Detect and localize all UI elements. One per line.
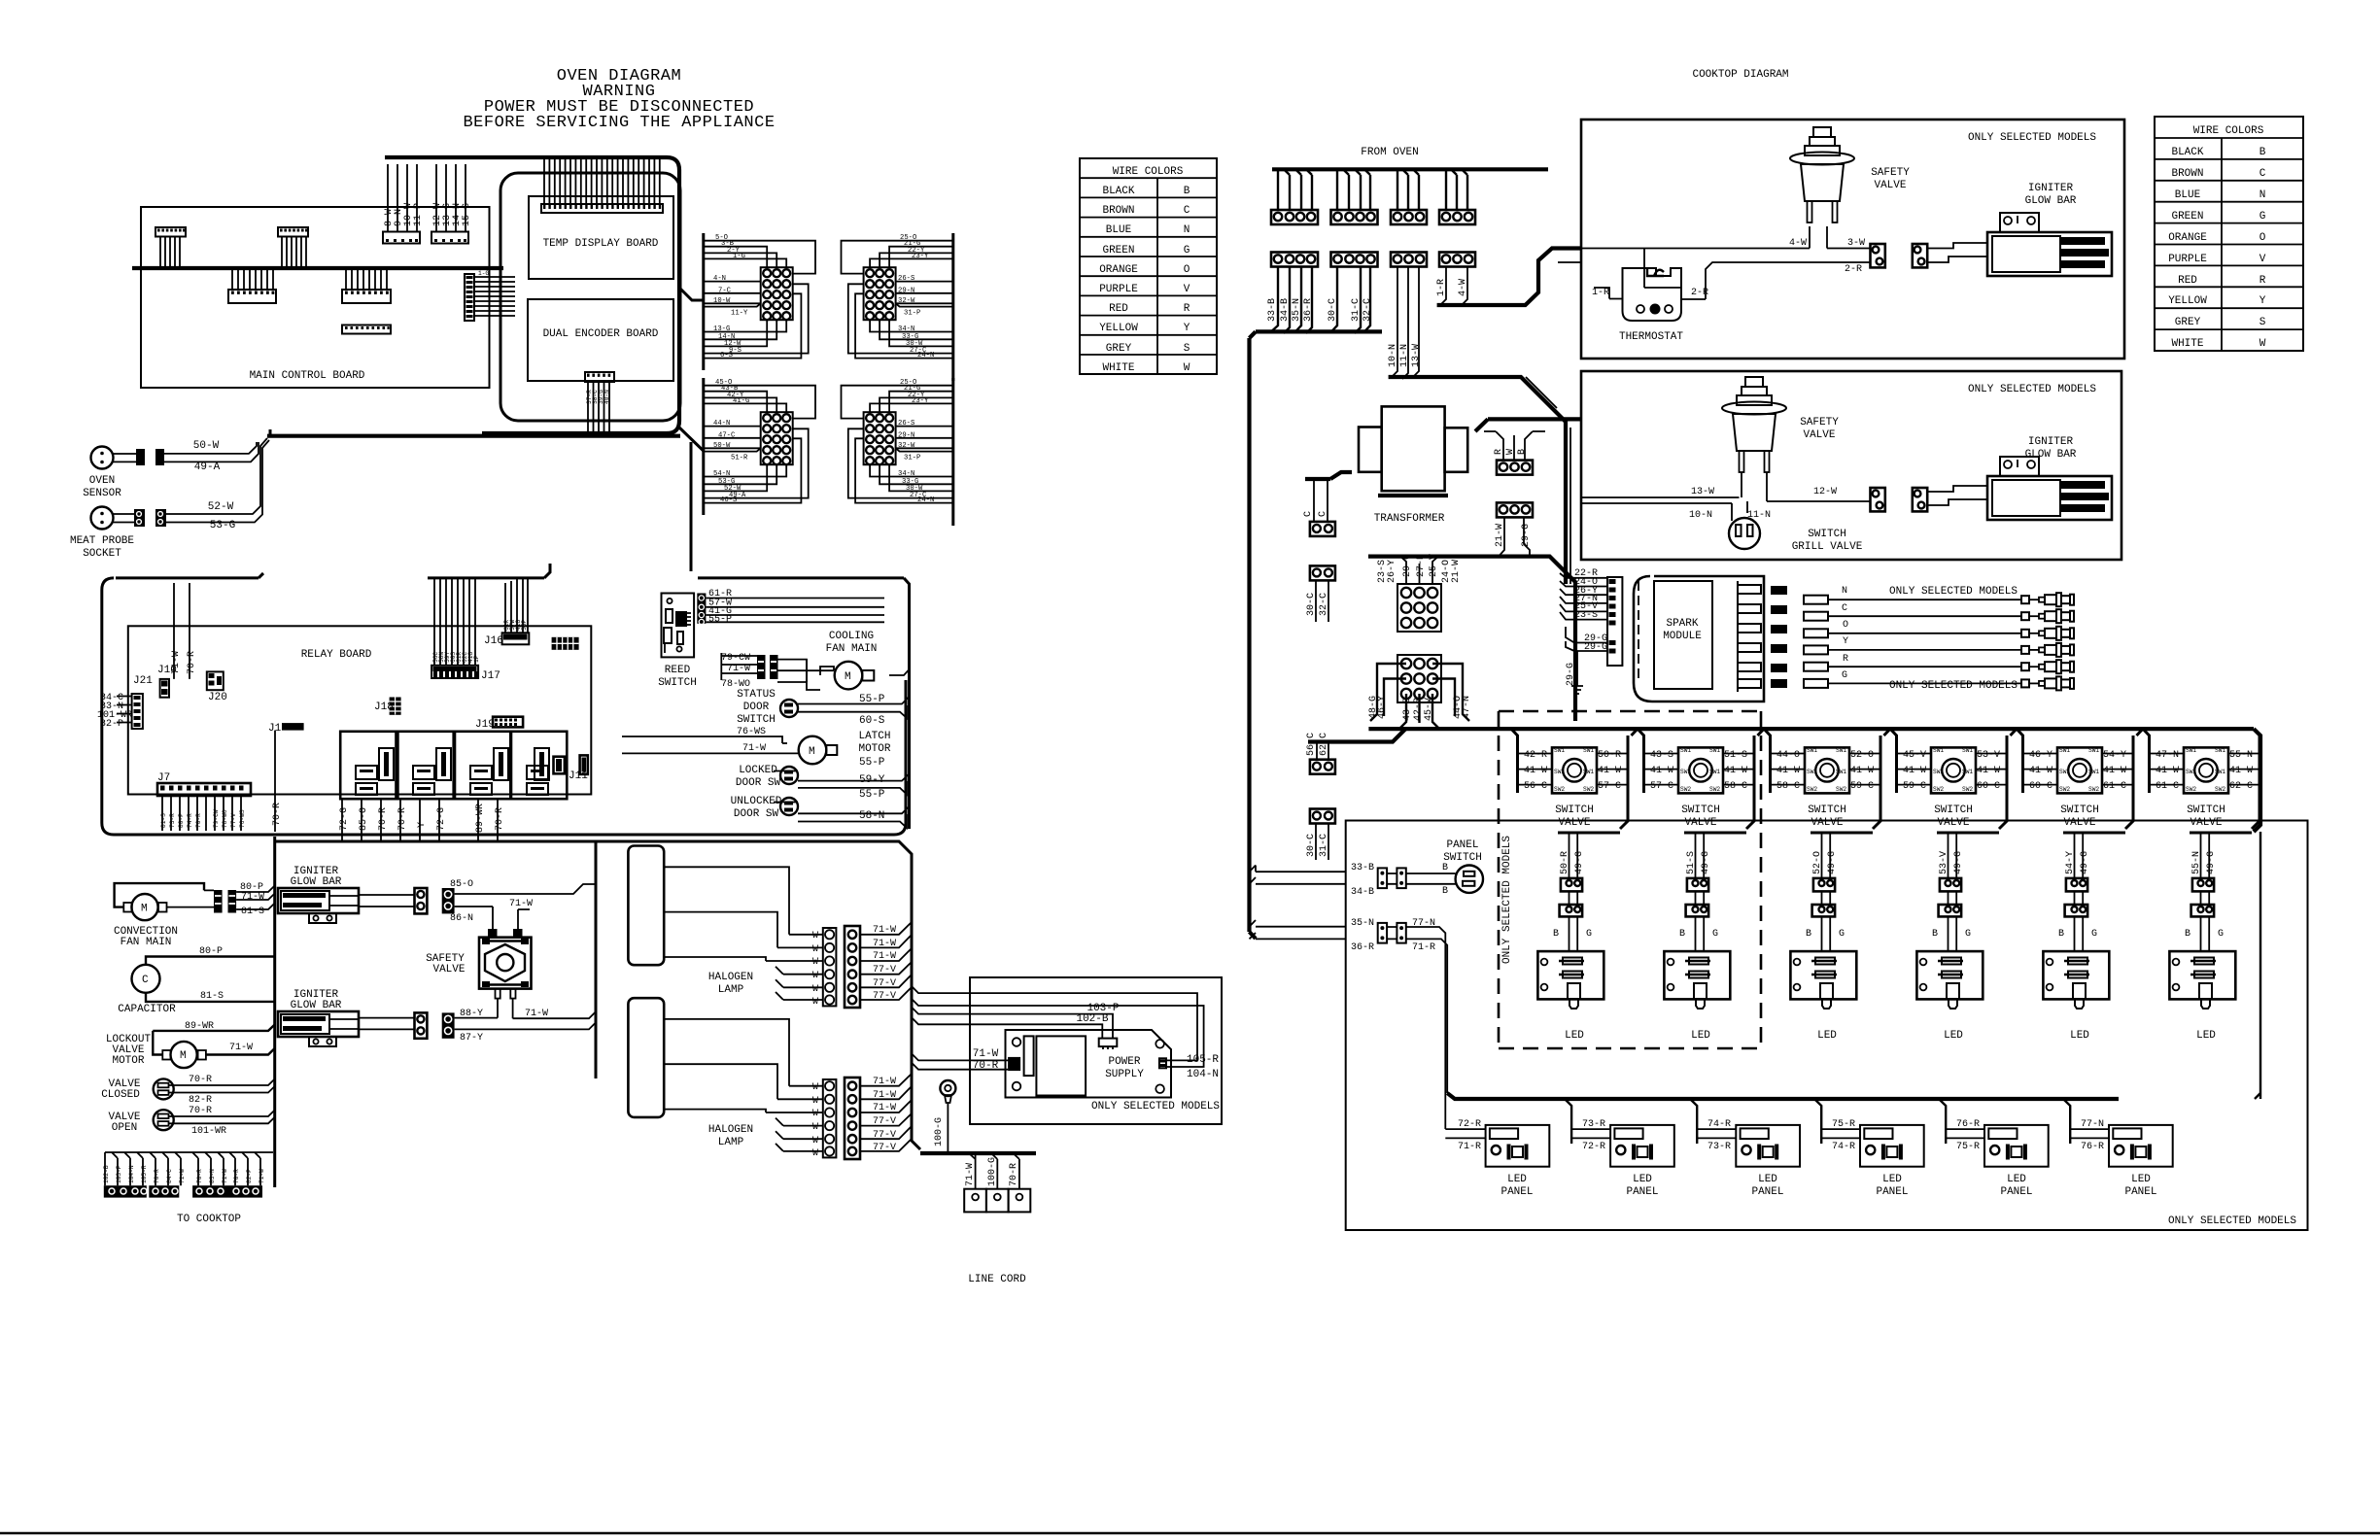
vertical bus to panel switch wires xyxy=(1250,866,1346,940)
switch valve 2 labels xyxy=(1650,750,1747,874)
svg-text:PANEL: PANEL xyxy=(1751,1186,1783,1198)
svg-text:FROM OVEN: FROM OVEN xyxy=(1361,147,1418,158)
svg-text:41-W: 41-W xyxy=(1524,766,1547,776)
igniter glow bar 2 xyxy=(278,989,415,1046)
svg-text:2-R: 2-R xyxy=(1845,264,1862,275)
svg-text:12-W: 12-W xyxy=(1813,487,1837,497)
svg-text:SW1: SW1 xyxy=(1836,747,1846,754)
svg-text:35-N: 35-N xyxy=(1292,298,1302,322)
svg-text:B: B xyxy=(1932,929,1938,940)
svg-text:SW2: SW2 xyxy=(1836,786,1846,793)
svg-text:R: R xyxy=(1184,303,1190,315)
svg-text:1-G: 1-G xyxy=(733,253,745,260)
main cooktop bus xyxy=(1250,729,2261,939)
connector J on board top-left 1 xyxy=(155,227,186,268)
main board bus (thick horizontal) xyxy=(132,266,503,270)
svg-text:Y: Y xyxy=(417,822,428,828)
relay top path segment xyxy=(428,442,904,578)
svg-text:89-WR: 89-WR xyxy=(475,804,486,833)
svg-text:GREY: GREY xyxy=(1106,343,1132,355)
svg-text:82-P: 82-P xyxy=(246,1169,253,1183)
svg-text:G: G xyxy=(1842,670,1847,681)
svg-text:74-R: 74-R xyxy=(1832,1142,1855,1152)
svg-text:70-R: 70-R xyxy=(1009,1163,1019,1186)
svg-text:ONLY SELECTED MODELS: ONLY SELECTED MODELS xyxy=(1091,1101,1220,1112)
svg-text:56-C: 56-C xyxy=(1524,781,1547,792)
to cooktop connectors xyxy=(103,1152,273,1225)
connector 56C 62C xyxy=(1306,733,1335,774)
svg-text:71-W: 71-W xyxy=(965,1163,976,1186)
svg-text:57-C: 57-C xyxy=(1598,781,1621,792)
svg-text:SW2: SW2 xyxy=(1554,786,1565,793)
svg-text:SW1: SW1 xyxy=(2088,747,2099,754)
svg-text:C: C xyxy=(1184,205,1190,217)
halogen lamp 1 xyxy=(628,846,789,997)
svg-text:W: W xyxy=(812,1109,818,1119)
svg-text:71-W: 71-W xyxy=(241,892,264,903)
svg-text:SWITCH: SWITCH xyxy=(1681,804,1720,816)
svg-text:LED: LED xyxy=(1633,1174,1652,1185)
svg-text:30-C: 30-C xyxy=(1306,593,1317,616)
svg-text:B: B xyxy=(1517,449,1528,455)
svg-text:73-R: 73-R xyxy=(1582,1119,1605,1130)
svg-text:70-R: 70-R xyxy=(189,1075,212,1085)
svg-text:41-W: 41-W xyxy=(2156,766,2179,776)
spark module input connector xyxy=(1560,568,1622,694)
svg-text:VALVE: VALVE xyxy=(2190,817,2222,829)
svg-text:M: M xyxy=(845,671,851,683)
svg-text:4-N: 4-N xyxy=(713,275,726,283)
svg-text:C: C xyxy=(1303,511,1314,517)
svg-text:GLOW BAR: GLOW BAR xyxy=(2025,449,2077,461)
connector 30C 32C xyxy=(1306,565,1335,622)
svg-text:103-P: 103-P xyxy=(116,1165,122,1183)
svg-text:PANEL: PANEL xyxy=(2124,1186,2156,1198)
svg-text:LED: LED xyxy=(1817,1030,1837,1042)
svg-text:52-O: 52-O xyxy=(1850,750,1874,761)
svg-text:GRILL VALVE: GRILL VALVE xyxy=(1792,541,1863,553)
svg-text:51-R: 51-R xyxy=(731,455,748,462)
svg-text:81-S: 81-S xyxy=(241,907,264,917)
svg-text:86-N: 86-N xyxy=(450,913,473,924)
svg-text:STATUS: STATUS xyxy=(737,689,776,701)
top connectors with wires up to top bus 1 xyxy=(383,164,424,244)
switch valve 3 labels xyxy=(1776,750,1874,874)
cluster harness BL xyxy=(704,378,815,515)
svg-text:34-B: 34-B xyxy=(1351,887,1374,898)
meat probe socket xyxy=(70,507,166,561)
svg-text:SW1: SW1 xyxy=(2215,747,2225,754)
svg-text:50-R: 50-R xyxy=(1598,750,1621,761)
svg-text:70-R: 70-R xyxy=(397,807,408,831)
svg-text:B: B xyxy=(1806,929,1811,940)
igniter glow bar 1 xyxy=(278,866,415,923)
svg-text:25-V: 25-V xyxy=(1429,554,1439,577)
bus 1R 4W xyxy=(1437,249,1581,306)
svg-text:LED: LED xyxy=(2007,1174,2026,1185)
svg-text:SW1: SW1 xyxy=(2059,769,2070,775)
svg-text:58-N: 58-N xyxy=(859,810,884,822)
svg-text:10-N: 10-N xyxy=(1388,344,1398,367)
switch valve 1 labels xyxy=(1524,750,1621,874)
svg-text:59-C: 59-C xyxy=(1903,781,1926,792)
svg-text:S: S xyxy=(2259,317,2266,328)
svg-text:TEMP DISPLAY BOARD: TEMP DISPLAY BOARD xyxy=(543,238,659,250)
pin grid block 1 (9) xyxy=(1377,554,1462,632)
svg-text:13-G: 13-G xyxy=(713,325,730,333)
relay 4 xyxy=(511,732,567,799)
svg-text:71-W: 71-W xyxy=(171,651,182,674)
J21 connector xyxy=(97,675,153,730)
relay 2 xyxy=(397,732,453,799)
svg-text:TRANSFORMER: TRANSFORMER xyxy=(1374,513,1445,525)
svg-text:J21: J21 xyxy=(133,675,153,687)
svg-text:SWITCH: SWITCH xyxy=(1443,852,1482,864)
svg-text:41-W: 41-W xyxy=(1850,766,1874,776)
relay board outer path xyxy=(102,429,906,835)
LED panel 5 xyxy=(1939,1099,2049,1198)
svg-text:82-P: 82-P xyxy=(100,719,123,730)
svg-text:O: O xyxy=(1843,620,1848,631)
svg-text:104-N: 104-N xyxy=(1187,1069,1219,1080)
svg-text:26-S: 26-S xyxy=(898,275,914,283)
svg-text:G: G xyxy=(1839,929,1845,940)
bus under transformer xyxy=(1368,557,1575,721)
svg-text:SW1: SW1 xyxy=(1933,747,1944,754)
switch valve 3 xyxy=(1764,729,1890,1042)
svg-text:54-N: 54-N xyxy=(713,470,730,478)
spark module xyxy=(1634,576,1787,702)
svg-text:70-R: 70-R xyxy=(189,1106,212,1116)
svg-text:LED: LED xyxy=(1944,1030,1963,1042)
svg-text:59-Y: 59-Y xyxy=(859,774,885,786)
svg-text:J18: J18 xyxy=(374,702,394,713)
svg-text:50-W: 50-W xyxy=(713,442,731,450)
svg-text:PURPLE: PURPLE xyxy=(1099,284,1138,295)
svg-text:SW1: SW1 xyxy=(2186,769,2196,775)
svg-text:100-G: 100-G xyxy=(987,1157,998,1186)
svg-text:SWITCH: SWITCH xyxy=(1808,804,1846,816)
svg-text:71-W: 71-W xyxy=(873,939,896,949)
svg-text:LAMP: LAMP xyxy=(718,984,744,996)
svg-text:SW1: SW1 xyxy=(1709,747,1720,754)
svg-text:50-R: 50-R xyxy=(1560,851,1570,874)
igniter connector pair 2 xyxy=(1871,488,1928,511)
svg-text:7-C: 7-C xyxy=(718,287,732,294)
svg-text:11-P: 11-P xyxy=(413,203,424,226)
svg-text:33-B: 33-B xyxy=(1351,863,1374,873)
svg-text:32-W: 32-W xyxy=(898,442,915,450)
svg-text:52-O: 52-O xyxy=(1812,851,1823,874)
svg-text:32-W: 32-W xyxy=(898,297,915,305)
svg-text:101-WR: 101-WR xyxy=(191,1126,226,1137)
svg-text:VALVE: VALVE xyxy=(1874,180,1906,191)
svg-text:75-R: 75-R xyxy=(1956,1142,1980,1152)
svg-text:CLOSED: CLOSED xyxy=(101,1089,140,1101)
svg-text:N: N xyxy=(2259,189,2266,201)
svg-text:21-W: 21-W xyxy=(1495,524,1505,547)
svg-text:M: M xyxy=(141,904,148,915)
svg-text:SW1: SW1 xyxy=(1807,747,1817,754)
svg-text:85-O: 85-O xyxy=(450,879,473,890)
svg-text:SW1: SW1 xyxy=(2186,747,2196,754)
bus under block2 xyxy=(1308,730,1405,742)
svg-text:55-P: 55-P xyxy=(708,615,732,626)
svg-text:BROWN: BROWN xyxy=(1102,205,1134,217)
svg-text:41-W: 41-W xyxy=(2103,766,2126,776)
svg-text:51-S: 51-S xyxy=(1724,750,1747,761)
bus 10N group xyxy=(1389,377,1566,584)
svg-text:11-N: 11-N xyxy=(1399,344,1410,367)
svg-text:33-B: 33-B xyxy=(1267,298,1278,322)
svg-text:DOOR SW: DOOR SW xyxy=(736,777,781,789)
svg-text:B: B xyxy=(1679,929,1685,940)
svg-text:2-R: 2-R xyxy=(1691,288,1708,298)
svg-text:31-P: 31-P xyxy=(904,310,920,318)
status door switch xyxy=(737,689,909,727)
svg-text:W: W xyxy=(812,1096,818,1107)
wire colors table (right) xyxy=(2155,117,2303,351)
svg-text:30-C: 30-C xyxy=(1328,298,1338,322)
svg-text:VALVE: VALVE xyxy=(2063,817,2095,829)
switch valve 6 xyxy=(2143,729,2259,1042)
from oven connector row 2 with tails xyxy=(1267,253,1475,380)
svg-text:B: B xyxy=(1442,863,1448,873)
J10 connector xyxy=(157,583,197,698)
svg-text:54-Y: 54-Y xyxy=(2065,851,2076,874)
svg-text:62-C: 62-C xyxy=(1319,733,1329,756)
svg-text:74-R: 74-R xyxy=(187,813,193,828)
svg-text:105-R: 105-R xyxy=(141,1165,148,1183)
svg-text:41-W: 41-W xyxy=(1977,766,2000,776)
power supply section box xyxy=(970,977,1222,1124)
svg-text:J20: J20 xyxy=(208,692,227,703)
svg-text:MODULE: MODULE xyxy=(1663,631,1702,642)
svg-text:70-R: 70-R xyxy=(233,1169,240,1183)
svg-text:77-V: 77-V xyxy=(873,978,896,989)
svg-text:B: B xyxy=(1184,186,1190,197)
J16 connector xyxy=(484,578,529,647)
svg-text:77-V: 77-V xyxy=(873,991,896,1002)
svg-text:YELLOW: YELLOW xyxy=(1099,323,1138,334)
svg-text:71-W: 71-W xyxy=(873,951,896,962)
svg-text:SW1: SW1 xyxy=(1583,747,1594,754)
svg-text:SW1: SW1 xyxy=(1554,769,1565,775)
svg-text:36-R: 36-R xyxy=(1303,298,1314,322)
svg-text:RED: RED xyxy=(2178,275,2197,287)
svg-text:SW1: SW1 xyxy=(1554,747,1565,754)
svg-text:24-N: 24-N xyxy=(917,496,934,504)
svg-text:102-B: 102-B xyxy=(103,1165,110,1183)
connector mid 1 with ribbon xyxy=(228,268,276,303)
svg-text:13-W: 13-W xyxy=(1411,344,1422,367)
svg-text:SW2: SW2 xyxy=(1583,786,1594,793)
svg-text:34-N: 34-N xyxy=(898,470,914,478)
svg-text:SUPPLY: SUPPLY xyxy=(1105,1069,1144,1080)
locked door switch xyxy=(736,757,910,795)
svg-text:70-R: 70-R xyxy=(272,803,283,826)
J7 wires down with labels xyxy=(160,796,246,831)
switch valve 4 xyxy=(1890,729,2017,1042)
svg-text:C: C xyxy=(142,975,149,986)
svg-text:46-Y: 46-Y xyxy=(1377,696,1388,719)
svg-text:ORANGE: ORANGE xyxy=(2168,232,2207,244)
svg-text:N: N xyxy=(1842,586,1847,597)
svg-text:77-N: 77-N xyxy=(1412,918,1435,929)
svg-text:70-R: 70-R xyxy=(195,813,202,828)
svg-text:SW2: SW2 xyxy=(1933,786,1944,793)
top thick bus over boards xyxy=(385,157,679,433)
svg-text:VALVE: VALVE xyxy=(1811,817,1843,829)
safety valve (oven) xyxy=(426,929,531,1018)
svg-text:26-S: 26-S xyxy=(898,420,914,428)
svg-text:44-O: 44-O xyxy=(1776,750,1800,761)
svg-text:60-C: 60-C xyxy=(1977,781,2000,792)
switch valve 4 labels xyxy=(1903,750,2000,874)
svg-text:10-N: 10-N xyxy=(1689,510,1712,521)
halogen lamp 2 xyxy=(628,998,789,1148)
svg-text:W: W xyxy=(812,1136,818,1146)
svg-text:W: W xyxy=(812,984,818,995)
svg-text:80-P: 80-P xyxy=(199,946,223,957)
svg-text:SWITCH: SWITCH xyxy=(2187,804,2225,816)
svg-text:LED: LED xyxy=(1882,1174,1902,1185)
svg-text:29-G: 29-G xyxy=(1566,663,1576,686)
svg-text:49-G: 49-G xyxy=(1827,851,1838,874)
svg-text:41-W: 41-W xyxy=(1650,766,1673,776)
svg-text:3-W: 3-W xyxy=(1847,238,1865,249)
line cord xyxy=(964,1153,1030,1285)
svg-text:C: C xyxy=(1318,511,1328,517)
svg-text:W: W xyxy=(2259,338,2266,350)
svg-text:SWITCH: SWITCH xyxy=(1934,804,1973,816)
svg-text:SW2: SW2 xyxy=(2215,786,2225,793)
svg-text:DUAL ENCODER BOARD: DUAL ENCODER BOARD xyxy=(543,328,659,340)
svg-text:71-W: 71-W xyxy=(259,1169,265,1183)
power supply wires xyxy=(912,986,1219,1080)
svg-text:SAFETY: SAFETY xyxy=(1800,417,1839,428)
svg-text:31-C: 31-C xyxy=(1319,834,1329,857)
svg-text:R: R xyxy=(1494,449,1504,455)
connector mid 3 strip xyxy=(342,325,391,334)
svg-text:BROWN: BROWN xyxy=(2171,168,2203,180)
svg-text:41-W: 41-W xyxy=(1903,766,1926,776)
svg-text:53-V: 53-V xyxy=(1939,851,1949,874)
svg-text:SWITCH: SWITCH xyxy=(737,714,776,726)
svg-text:77-V: 77-V xyxy=(230,813,237,828)
svg-text:R: R xyxy=(1843,654,1848,665)
thermostat xyxy=(1592,249,1708,344)
ground ring terminal 100-G xyxy=(934,1080,955,1153)
svg-text:71-R: 71-R xyxy=(1458,1142,1481,1152)
svg-text:4-W: 4-W xyxy=(1789,238,1807,249)
svg-text:W: W xyxy=(812,997,818,1008)
svg-text:MOTOR: MOTOR xyxy=(858,743,890,755)
svg-text:80-P: 80-P xyxy=(178,813,185,828)
temp board top comb connector with ribbon to bus xyxy=(541,159,663,213)
svg-text:GREEN: GREEN xyxy=(1102,245,1134,257)
svg-text:49-G: 49-G xyxy=(2206,851,2217,874)
svg-text:87-Y: 87-Y xyxy=(460,1033,483,1044)
igniter 1 connectors xyxy=(415,879,597,932)
svg-text:SPARK: SPARK xyxy=(1666,618,1698,630)
svg-text:47-N: 47-N xyxy=(2156,750,2179,761)
svg-text:LINE CORD: LINE CORD xyxy=(968,1274,1026,1285)
svg-text:W: W xyxy=(1184,362,1190,374)
svg-text:SOCKET: SOCKET xyxy=(83,548,121,560)
latch motor xyxy=(622,727,891,764)
svg-text:ONLY SELECTED MODELS: ONLY SELECTED MODELS xyxy=(1889,680,2018,692)
switch valve 5 labels xyxy=(2029,750,2126,874)
svg-text:11-Y: 11-Y xyxy=(731,310,748,318)
switch valve 2 xyxy=(1638,729,1764,1042)
svg-text:FAN MAIN: FAN MAIN xyxy=(121,937,172,948)
svg-text:W: W xyxy=(1505,449,1516,455)
svg-text:1P: 1P xyxy=(473,655,480,663)
svg-text:VALVE: VALVE xyxy=(1803,429,1835,441)
svg-text:71-W: 71-W xyxy=(179,1169,186,1183)
svg-text:77-V: 77-V xyxy=(873,1116,896,1127)
svg-text:54-Y: 54-Y xyxy=(2103,750,2126,761)
svg-text:70-R: 70-R xyxy=(378,807,389,831)
LED panel 2 xyxy=(1565,1099,1674,1198)
J20 connector xyxy=(207,671,227,703)
oven sensor wires 50-W 49-A xyxy=(164,440,259,473)
svg-text:N: N xyxy=(1184,224,1190,236)
svg-text:73-R: 73-R xyxy=(169,813,176,828)
svg-text:34-N: 34-N xyxy=(898,325,914,333)
temp display board xyxy=(529,196,673,279)
relay bottom wires with labels xyxy=(272,731,505,841)
lockout valve motor xyxy=(106,1021,275,1068)
svg-text:LED: LED xyxy=(2131,1174,2151,1185)
svg-text:W: W xyxy=(812,1122,818,1133)
svg-text:55-N: 55-N xyxy=(2191,851,2202,874)
svg-text:49-G: 49-G xyxy=(1574,851,1585,874)
svg-text:60-S: 60-S xyxy=(859,715,885,727)
svg-text:76-R: 76-R xyxy=(1956,1119,1980,1130)
svg-text:49-G: 49-G xyxy=(1701,851,1711,874)
svg-text:G: G xyxy=(2259,211,2266,222)
cluster harness TL xyxy=(704,233,815,370)
svg-text:41-W: 41-W xyxy=(2229,766,2253,776)
svg-text:BLACK: BLACK xyxy=(1102,186,1134,197)
svg-text:LAMP: LAMP xyxy=(718,1137,744,1148)
relay 1 xyxy=(340,732,396,799)
svg-text:COOKTOP DIAGRAM: COOKTOP DIAGRAM xyxy=(1692,69,1788,81)
capacitor xyxy=(118,946,274,1015)
svg-text:29-G: 29-G xyxy=(1584,642,1607,653)
bus stubs to clusters xyxy=(679,288,704,451)
svg-text:41-W: 41-W xyxy=(1598,766,1621,776)
svg-text:Y: Y xyxy=(2259,295,2266,307)
svg-text:ONLY SELECTED MODELS: ONLY SELECTED MODELS xyxy=(1889,586,2018,598)
svg-text:27-N: 27-N xyxy=(1416,554,1427,577)
svg-text:29-G: 29-G xyxy=(1521,524,1532,547)
svg-text:88-Y: 88-Y xyxy=(460,1009,483,1019)
svg-text:LED: LED xyxy=(1507,1174,1527,1185)
svg-text:VALVE: VALVE xyxy=(1558,817,1590,829)
svg-text:78-WO: 78-WO xyxy=(222,809,228,828)
svg-text:6-S: 6-S xyxy=(720,352,733,359)
svg-text:45-V: 45-V xyxy=(1903,750,1926,761)
svg-text:62-C: 62-C xyxy=(2229,781,2253,792)
spark plugs xyxy=(2029,593,2074,690)
svg-text:72-G: 72-G xyxy=(436,807,447,831)
svg-text:IGNITER: IGNITER xyxy=(2028,183,2074,194)
top connectors with wires up to top bus 2 xyxy=(431,164,472,244)
dual encoder board xyxy=(528,299,673,381)
